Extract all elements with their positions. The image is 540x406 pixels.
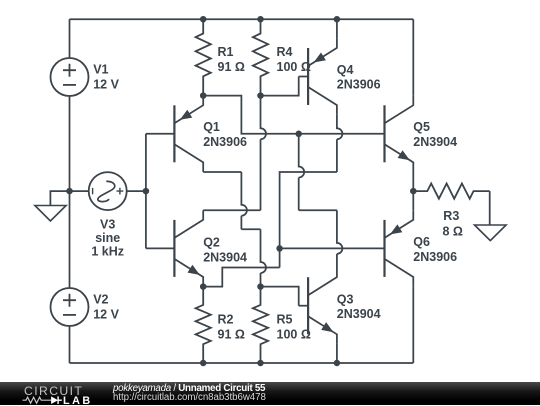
transistor Q2	[173, 220, 175, 277]
node Q3 emitter bottom rail	[334, 360, 341, 367]
wire Q6 base	[280, 247, 385, 249]
svg-text:2N3904: 2N3904	[337, 307, 381, 321]
wire left rail V2 bottom lead	[69, 326, 71, 363]
svg-text:8 Ω: 8 Ω	[443, 224, 463, 238]
resistor R2	[196, 287, 211, 363]
node V1/V2/gnd/V3 junction	[66, 188, 73, 195]
wire Q4 collector down with hop	[337, 115, 343, 172]
svg-text:Q1: Q1	[203, 120, 220, 134]
resistor R3	[413, 184, 489, 199]
logo diode	[51, 396, 58, 404]
svg-text:2N3906: 2N3906	[413, 250, 457, 264]
svg-text:2N3904: 2N3904	[413, 135, 457, 149]
node R5 bottom	[257, 360, 264, 367]
wire left rail node-to-V2	[69, 191, 71, 288]
svg-text:100 Ω: 100 Ω	[277, 60, 311, 74]
node Q6 base junction	[276, 245, 283, 252]
wire R4 column with hop	[261, 96, 267, 211]
wire R5 column with hop	[261, 229, 267, 286]
svg-text:Q3: Q3	[337, 292, 354, 306]
wire Q3 collector column with hop	[337, 210, 343, 267]
transistor Q4	[307, 48, 309, 105]
svg-text:100 Ω: 100 Ω	[277, 327, 311, 341]
wire left rail V1 top lead	[69, 19, 71, 58]
resistor R1	[196, 19, 211, 95]
svg-text:Q2: Q2	[203, 235, 220, 249]
resistor R5	[253, 287, 268, 363]
svg-text:12 V: 12 V	[93, 78, 119, 92]
node R2 top	[200, 283, 207, 290]
source V3 sine	[70, 190, 89, 192]
wire Q5-base branch down with hop	[299, 134, 305, 210]
wire down-left to R2 top	[203, 268, 279, 287]
svg-text:Q6: Q6	[413, 235, 430, 249]
wire Q2 collector to R4	[203, 209, 260, 211]
svg-text:V2: V2	[93, 293, 108, 307]
wire R5 to Q3 base	[261, 287, 299, 306]
svg-text:2N3906: 2N3906	[203, 135, 247, 149]
wire Q1 collector down with hop	[241, 172, 247, 229]
voltage source V1	[51, 58, 89, 96]
wire top rail	[70, 18, 414, 20]
svg-text:12 V: 12 V	[93, 308, 119, 322]
wire R4 to Q4 base	[261, 77, 299, 96]
svg-text:LAB: LAB	[63, 395, 93, 406]
node output junction	[410, 188, 417, 195]
transistor Q6	[383, 220, 385, 277]
node R5 top	[257, 283, 264, 290]
ground right	[489, 191, 491, 225]
voltage source V2	[51, 288, 89, 326]
wire bottom rail	[70, 362, 414, 364]
wire Q1 collector run	[203, 171, 241, 173]
wire left rail V1-to-node	[69, 96, 71, 191]
svg-text:2N3906: 2N3906	[337, 78, 381, 92]
svg-text:R4: R4	[277, 45, 293, 59]
wire base column	[145, 134, 147, 249]
svg-text:V3: V3	[100, 217, 115, 231]
node Q4 emitter top rail	[334, 16, 341, 23]
node R2 bottom	[200, 360, 207, 367]
transistor Q3	[307, 277, 309, 334]
wire jog to R5 column	[241, 228, 260, 230]
svg-text:91 Ω: 91 Ω	[218, 327, 245, 341]
svg-text:V1: V1	[93, 63, 108, 77]
transistor Q5	[383, 105, 385, 162]
node V3-base junction	[143, 188, 150, 195]
svg-text:sine: sine	[95, 231, 120, 245]
svg-text:1 kHz: 1 kHz	[91, 245, 124, 259]
wire Q1 base	[146, 133, 175, 135]
transistor Q1	[173, 105, 175, 162]
node R1 top	[200, 16, 207, 23]
svg-text:R2: R2	[218, 312, 234, 326]
svg-text:91 Ω: 91 Ω	[218, 60, 245, 74]
resistor R4	[253, 19, 268, 95]
wire R1 to Q5-base row	[203, 96, 384, 134]
wire Q2 base	[146, 247, 175, 249]
wire branch to Q3 collector column	[299, 209, 337, 211]
svg-text:Q5: Q5	[413, 120, 430, 134]
svg-text:R5: R5	[277, 312, 293, 326]
wire Q4 collector to left column	[280, 172, 337, 268]
node R4 top	[257, 16, 264, 23]
svg-text:Q4: Q4	[337, 63, 354, 77]
svg-text:R1: R1	[218, 45, 234, 59]
svg-text:2N3904: 2N3904	[203, 250, 247, 264]
svg-text:R3: R3	[443, 209, 459, 223]
node R1 bottom	[200, 92, 207, 99]
logo resistor zigzag	[23, 397, 52, 403]
ground left	[50, 191, 69, 205]
node Q5 base branch	[295, 131, 302, 138]
node R4 bottom	[257, 92, 264, 99]
